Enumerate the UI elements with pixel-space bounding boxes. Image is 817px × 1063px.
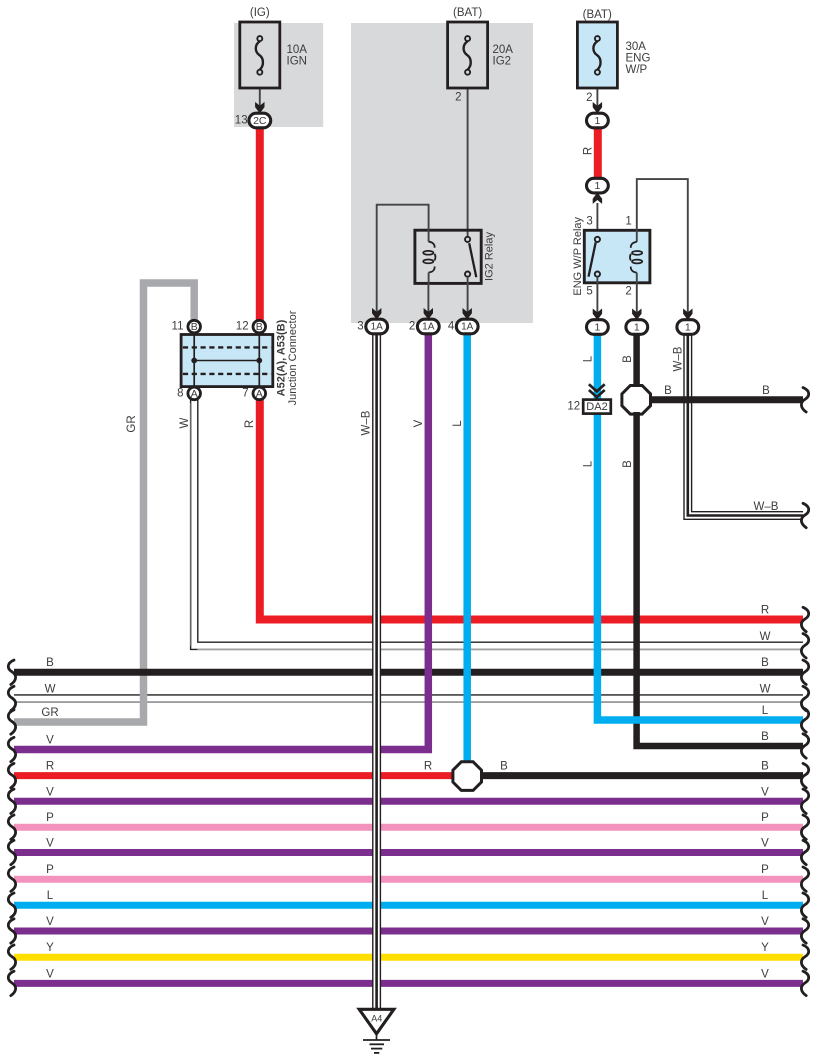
svg-text:R: R	[761, 605, 769, 617]
svg-text:11: 11	[172, 321, 184, 333]
svg-text:B: B	[256, 321, 263, 333]
svg-text:1A: 1A	[461, 322, 474, 333]
svg-text:IG2: IG2	[493, 56, 512, 68]
svg-text:P: P	[46, 864, 54, 876]
svg-text:2: 2	[455, 92, 461, 104]
svg-text:V: V	[46, 786, 54, 798]
svg-text:IG2 Relay: IG2 Relay	[484, 232, 496, 281]
svg-text:1: 1	[685, 322, 691, 334]
svg-text:V: V	[46, 916, 54, 928]
svg-text:ENG W/P Relay: ENG W/P Relay	[572, 216, 584, 295]
svg-text:2C: 2C	[253, 115, 267, 127]
svg-text:7: 7	[242, 387, 248, 399]
svg-text:2: 2	[409, 321, 415, 333]
svg-text:B: B	[500, 761, 508, 773]
svg-text:Y: Y	[46, 942, 54, 954]
svg-text:V: V	[761, 916, 769, 928]
svg-text:R: R	[244, 420, 256, 428]
svg-text:V: V	[761, 838, 769, 850]
svg-text:V: V	[46, 968, 54, 980]
svg-text:IGN: IGN	[287, 56, 307, 68]
svg-text:12: 12	[567, 401, 580, 413]
svg-text:L: L	[583, 355, 595, 362]
svg-text:B: B	[191, 321, 198, 333]
svg-text:Junction Connector: Junction Connector	[287, 310, 299, 405]
svg-text:2: 2	[625, 286, 631, 298]
svg-text:B: B	[761, 731, 769, 743]
svg-text:3: 3	[357, 321, 363, 333]
svg-text:R: R	[583, 147, 595, 155]
svg-text:1A: 1A	[371, 322, 384, 333]
svg-text:3: 3	[586, 216, 592, 228]
svg-text:L: L	[583, 460, 595, 467]
svg-text:A4: A4	[371, 1014, 382, 1024]
svg-text:V: V	[46, 735, 54, 747]
svg-text:Y: Y	[761, 942, 769, 954]
svg-text:P: P	[46, 812, 54, 824]
svg-text:W–B: W–B	[754, 501, 779, 513]
svg-text:B: B	[622, 355, 634, 363]
svg-text:(BAT): (BAT)	[453, 7, 482, 19]
svg-text:B: B	[761, 761, 769, 773]
svg-text:13: 13	[235, 115, 248, 127]
svg-text:W/P: W/P	[626, 64, 648, 76]
svg-text:10A: 10A	[287, 44, 308, 56]
svg-text:B: B	[762, 385, 770, 397]
svg-text:4: 4	[448, 321, 455, 333]
svg-text:8: 8	[177, 387, 183, 399]
svg-text:2: 2	[586, 92, 592, 104]
svg-text:5: 5	[586, 286, 592, 298]
svg-text:GR: GR	[41, 707, 58, 719]
svg-text:GR: GR	[126, 415, 138, 432]
svg-text:W–B: W–B	[672, 346, 684, 371]
svg-text:L: L	[762, 705, 769, 717]
svg-text:L: L	[762, 890, 769, 902]
svg-text:V: V	[46, 838, 54, 850]
svg-text:V: V	[761, 786, 769, 798]
svg-text:1A: 1A	[422, 322, 435, 333]
svg-text:1: 1	[625, 216, 631, 228]
svg-text:L: L	[452, 420, 464, 427]
svg-text:W: W	[760, 631, 771, 643]
svg-text:ENG: ENG	[626, 53, 651, 65]
svg-text:R: R	[46, 761, 54, 773]
svg-text:L: L	[47, 890, 54, 902]
svg-text:1: 1	[594, 115, 600, 127]
svg-text:V: V	[761, 968, 769, 980]
svg-text:DA2: DA2	[586, 401, 607, 413]
svg-text:W: W	[45, 684, 56, 696]
svg-text:12: 12	[236, 321, 249, 333]
svg-text:B: B	[664, 385, 672, 397]
svg-text:W: W	[179, 417, 191, 428]
svg-text:1: 1	[594, 322, 600, 334]
svg-text:W–B: W–B	[360, 410, 372, 435]
svg-text:V: V	[413, 419, 425, 427]
svg-text:(IG): (IG)	[250, 7, 270, 19]
svg-text:(BAT): (BAT)	[583, 9, 612, 21]
svg-text:P: P	[761, 864, 769, 876]
svg-text:B: B	[761, 657, 769, 669]
svg-text:B: B	[46, 657, 54, 669]
svg-text:A52(A), A53(B): A52(A), A53(B)	[276, 319, 288, 396]
svg-text:1: 1	[594, 180, 600, 192]
svg-text:1: 1	[634, 322, 640, 334]
svg-text:W: W	[760, 684, 771, 696]
svg-text:R: R	[424, 761, 432, 773]
svg-text:A: A	[256, 388, 263, 400]
svg-text:30A: 30A	[626, 41, 647, 53]
svg-text:A: A	[191, 388, 198, 400]
svg-text:20A: 20A	[493, 44, 514, 56]
svg-text:B: B	[622, 460, 634, 468]
svg-text:P: P	[761, 812, 769, 824]
